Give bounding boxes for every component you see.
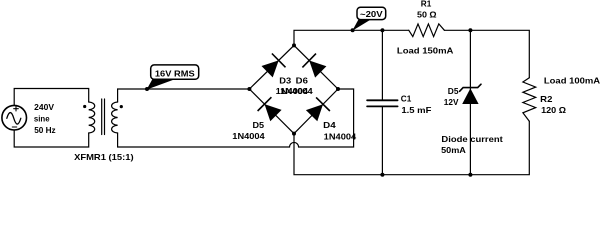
svg-text:R1: R1 — [421, 0, 432, 8]
svg-text:240V: 240V — [34, 102, 54, 112]
capacitor C1 bottom lead — [381, 106, 383, 174]
AC source sine wave — [7, 113, 21, 125]
svg-text:1N4004: 1N4004 — [280, 86, 313, 96]
resistor R1 zigzag — [409, 24, 445, 37]
node C1 bottom — [380, 173, 384, 177]
node bridge right — [336, 87, 340, 91]
bridge diamond wires — [249, 45, 338, 133]
wire top rail right of R1 — [444, 30, 529, 77]
capacitor C1 branch top lead — [381, 30, 383, 100]
diode D5 bridge — [258, 97, 282, 121]
wire bridge plus to top rail — [294, 30, 409, 45]
wire secondary top — [118, 89, 250, 102]
transformer XFMR1 primary coil — [89, 102, 95, 133]
transformer core — [102, 99, 105, 135]
wire secondary bottom with hop over bridge minus wire — [118, 89, 354, 147]
svg-text:50 Ω: 50 Ω — [417, 10, 437, 20]
diode D4 — [306, 97, 330, 121]
svg-text:D4: D4 — [323, 120, 336, 130]
svg-text:50 Hz: 50 Hz — [34, 125, 56, 135]
AC source minus sign — [12, 126, 16, 128]
AC source plus sign — [14, 106, 19, 111]
svg-text:R2: R2 — [540, 94, 553, 104]
junction node dots — [247, 28, 472, 176]
svg-text:D6: D6 — [296, 76, 309, 86]
svg-text:1.5 mF: 1.5 mF — [401, 105, 431, 115]
svg-text:D5: D5 — [253, 120, 265, 130]
zener D5 triangle — [462, 88, 478, 104]
zener D5 branch wire — [469, 30, 471, 174]
diode D3 — [262, 54, 286, 78]
svg-text:1N4004: 1N4004 — [324, 131, 357, 141]
node bridge left — [247, 87, 251, 91]
svg-text:XFMR1 (15:1): XFMR1 (15:1) — [74, 152, 134, 162]
svg-text:Load 100mA: Load 100mA — [544, 75, 600, 85]
svg-text:Load 150mA: Load 150mA — [397, 45, 454, 55]
svg-text:~20V: ~20V — [360, 9, 383, 19]
callout 16V RMS — [145, 65, 199, 91]
svg-text:sine: sine — [34, 114, 50, 124]
svg-text:D5: D5 — [448, 86, 459, 96]
wire primary loop — [14, 89, 89, 148]
svg-text:12V: 12V — [444, 97, 459, 107]
svg-text:Diode current: Diode current — [441, 134, 503, 144]
transformer XFMR1 secondary coil — [112, 102, 118, 133]
svg-text:16V RMS: 16V RMS — [155, 69, 195, 79]
svg-text:1N4004: 1N4004 — [232, 131, 265, 141]
node bridge bottom — [292, 132, 296, 136]
node C1 top — [380, 28, 384, 32]
svg-text:D3: D3 — [279, 76, 291, 86]
node bridge top — [292, 43, 296, 47]
diode D6 — [302, 54, 326, 78]
wire right side down and bottom rail — [294, 121, 529, 175]
node zener bottom — [468, 173, 472, 177]
callout ~20V — [351, 7, 386, 32]
capacitor C1 plates — [367, 100, 398, 106]
node zener top — [468, 28, 472, 32]
zener D5 bar with ticks — [460, 84, 481, 91]
svg-text:120 Ω: 120 Ω — [541, 105, 566, 115]
AC source V1 circle — [2, 105, 27, 130]
svg-text:C1: C1 — [401, 94, 412, 104]
resistor R2 zigzag — [523, 78, 536, 122]
transformer phase dots — [83, 105, 86, 108]
svg-text:50mA: 50mA — [441, 145, 466, 155]
